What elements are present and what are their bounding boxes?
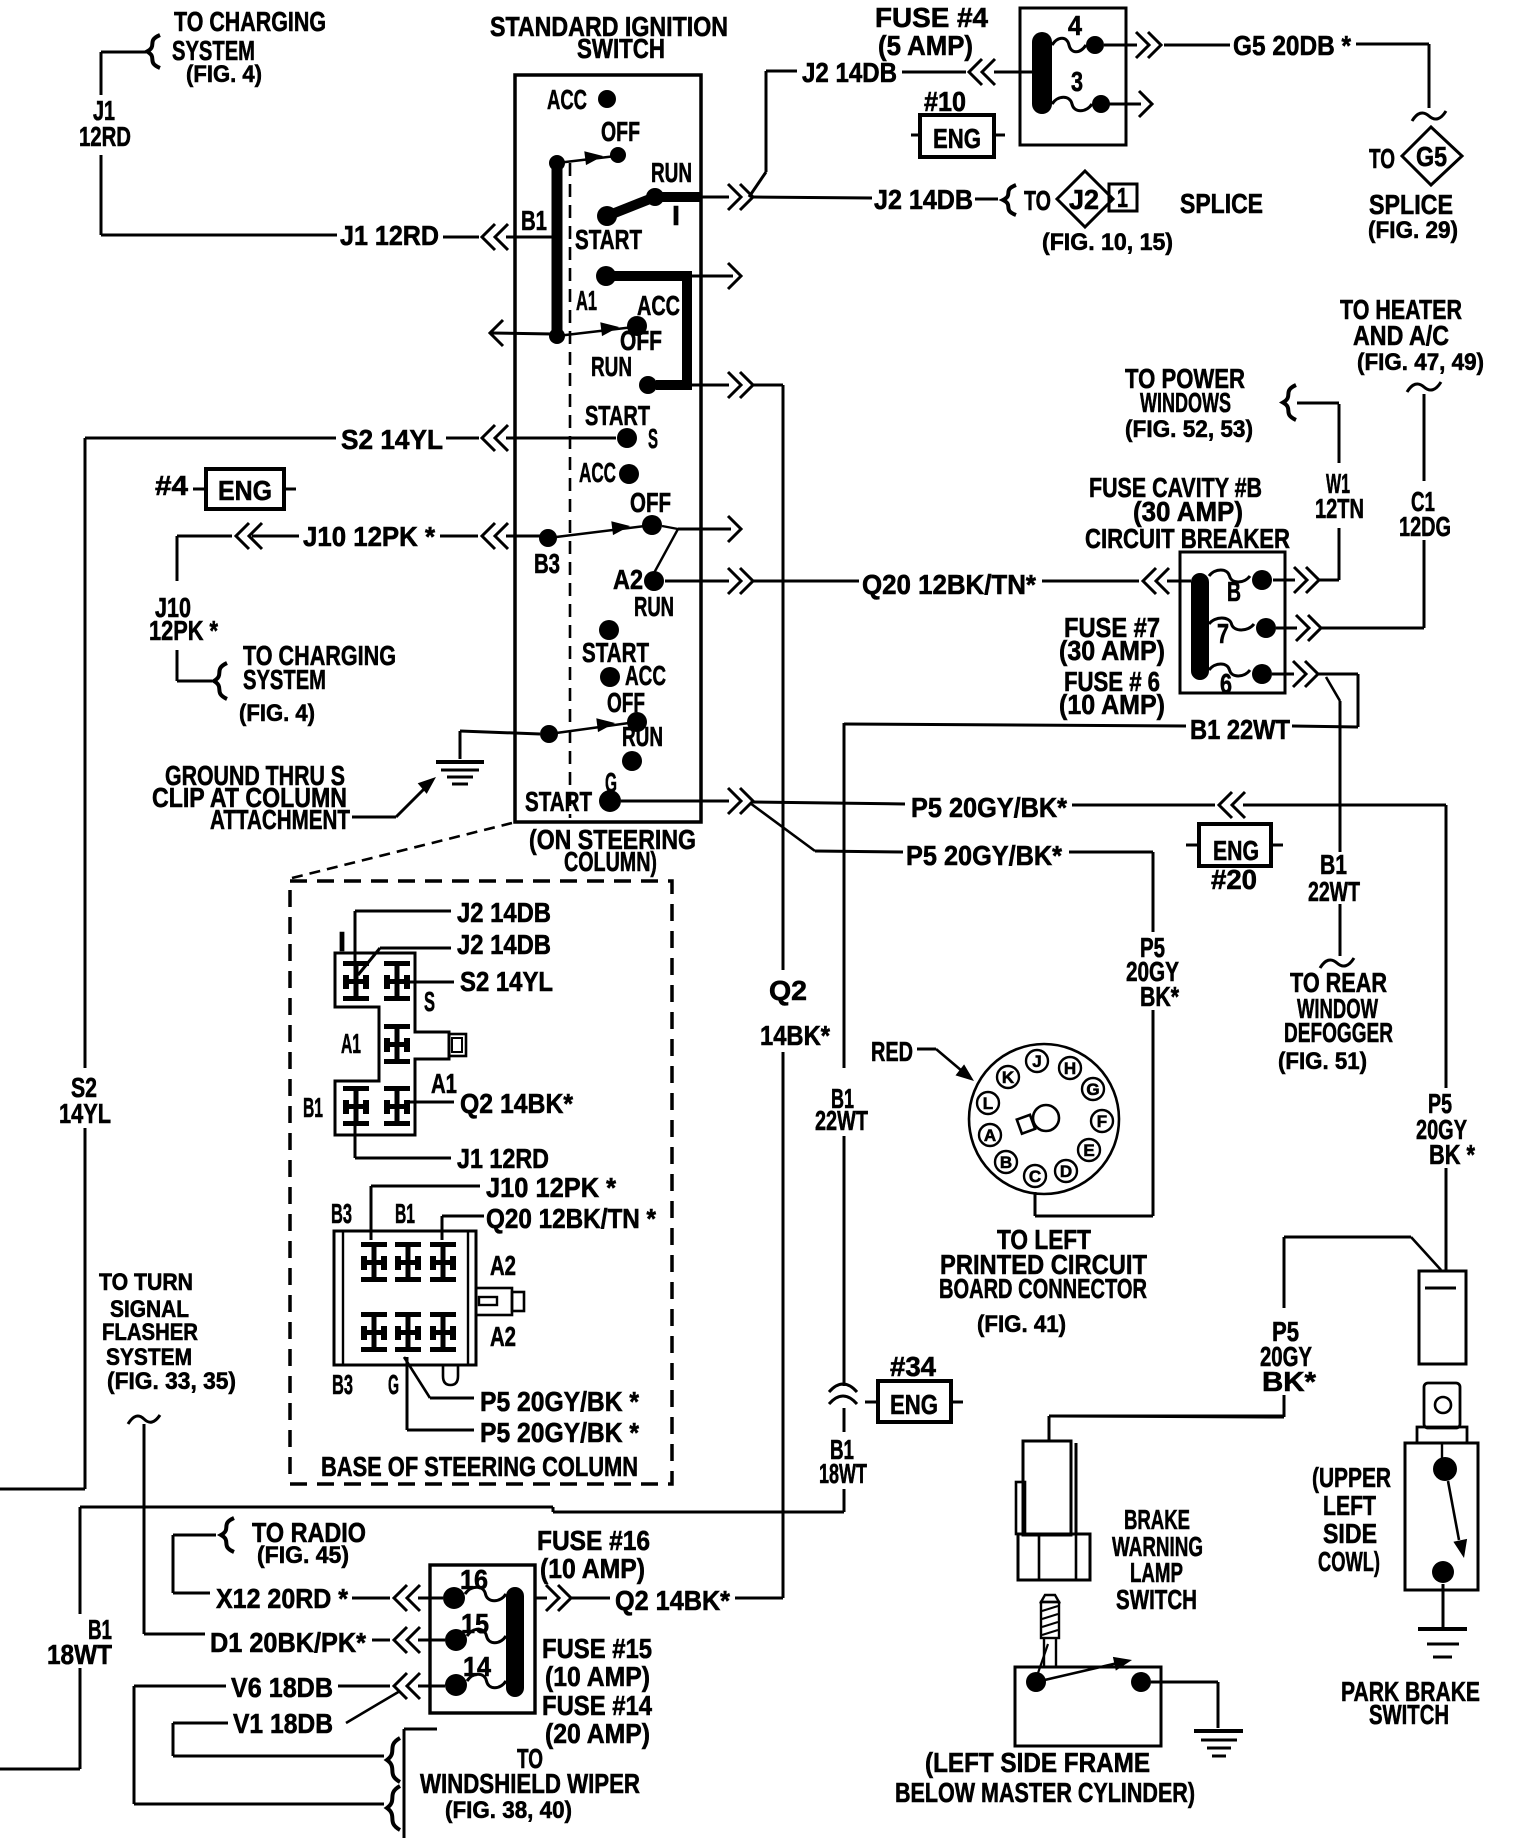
svg-text:S2 14YL: S2 14YL bbox=[341, 424, 443, 455]
svg-text:FUSE #15: FUSE #15 bbox=[542, 1633, 652, 1664]
svg-text:G: G bbox=[1086, 1080, 1099, 1099]
svg-text:SYSTEM: SYSTEM bbox=[243, 664, 326, 695]
svg-text:I: I bbox=[672, 200, 680, 231]
svg-text:J2: J2 bbox=[1069, 184, 1099, 215]
svg-text:(FIG. 4): (FIG. 4) bbox=[239, 700, 315, 727]
svg-text:ENG: ENG bbox=[890, 1389, 938, 1420]
svg-text:RUN: RUN bbox=[651, 157, 692, 188]
svg-text:BASE OF STEERING COLUMN: BASE OF STEERING COLUMN bbox=[321, 1451, 638, 1482]
svg-text:22WT: 22WT bbox=[1308, 876, 1360, 907]
svg-text:#10: #10 bbox=[924, 86, 966, 117]
svg-text:TO: TO bbox=[1024, 185, 1051, 216]
svg-text:ATTACHMENT: ATTACHMENT bbox=[210, 804, 350, 835]
svg-text:S: S bbox=[648, 423, 658, 454]
svg-text:(30 AMP): (30 AMP) bbox=[1059, 635, 1165, 666]
svg-text:A2: A2 bbox=[490, 1250, 516, 1281]
svg-text:D1 20BK/PK*: D1 20BK/PK* bbox=[210, 1627, 366, 1658]
svg-text:(FIG. 29): (FIG. 29) bbox=[1368, 217, 1458, 244]
svg-text:(10 AMP): (10 AMP) bbox=[1059, 689, 1165, 720]
svg-text:F: F bbox=[1097, 1112, 1107, 1131]
svg-text:SYSTEM: SYSTEM bbox=[106, 1344, 192, 1371]
svg-text:A1: A1 bbox=[341, 1028, 361, 1059]
svg-text:RUN: RUN bbox=[622, 721, 663, 752]
svg-text:P5 20GY/BK*: P5 20GY/BK* bbox=[911, 792, 1067, 823]
svg-text:14YL: 14YL bbox=[59, 1098, 111, 1129]
svg-text:RED: RED bbox=[871, 1036, 913, 1067]
svg-text:12TN: 12TN bbox=[1315, 493, 1364, 524]
svg-text:18WT: 18WT bbox=[819, 1458, 867, 1489]
svg-text:BK *: BK * bbox=[1429, 1139, 1475, 1170]
svg-text:SIDE: SIDE bbox=[1323, 1518, 1377, 1549]
svg-text:G: G bbox=[605, 767, 617, 798]
svg-text:B1: B1 bbox=[303, 1092, 323, 1123]
svg-text:A: A bbox=[984, 1126, 996, 1145]
svg-text:ACC: ACC bbox=[637, 290, 680, 321]
svg-text:(10 AMP): (10 AMP) bbox=[545, 1661, 650, 1692]
svg-text:COLUMN): COLUMN) bbox=[564, 846, 657, 877]
svg-text:L: L bbox=[983, 1094, 993, 1113]
svg-text:B1 22WT: B1 22WT bbox=[1190, 714, 1290, 745]
svg-text:AND A/C: AND A/C bbox=[1353, 320, 1449, 351]
svg-text:12PK *: 12PK * bbox=[149, 615, 218, 646]
svg-text:ENG: ENG bbox=[1213, 835, 1259, 866]
svg-text:RUN: RUN bbox=[634, 591, 674, 622]
svg-text:SWITCH: SWITCH bbox=[1369, 1699, 1449, 1730]
svg-text:CIRCUIT BREAKER: CIRCUIT BREAKER bbox=[1085, 523, 1290, 554]
svg-text:G: G bbox=[388, 1369, 399, 1400]
svg-text:16: 16 bbox=[460, 1564, 488, 1595]
svg-text:(10 AMP): (10 AMP) bbox=[540, 1553, 645, 1584]
svg-text:J1 12RD: J1 12RD bbox=[457, 1143, 549, 1174]
svg-text:COWL): COWL) bbox=[1318, 1546, 1380, 1577]
svg-text:B3: B3 bbox=[332, 1369, 353, 1400]
svg-text:P5 20GY/BK *: P5 20GY/BK * bbox=[480, 1417, 639, 1448]
svg-text:4: 4 bbox=[1068, 10, 1082, 41]
svg-text:#34: #34 bbox=[890, 1351, 936, 1382]
svg-text:K: K bbox=[1002, 1068, 1015, 1087]
svg-text:A1: A1 bbox=[576, 285, 597, 316]
svg-text:P5 20GY/BK *: P5 20GY/BK * bbox=[480, 1386, 639, 1417]
svg-text:(FIG. 41): (FIG. 41) bbox=[977, 1311, 1066, 1338]
svg-text:6: 6 bbox=[1220, 668, 1232, 699]
svg-text:C: C bbox=[1029, 1167, 1041, 1186]
svg-text:BOARD CONNECTOR: BOARD CONNECTOR bbox=[939, 1273, 1147, 1304]
svg-text:(FIG. 45): (FIG. 45) bbox=[257, 1542, 349, 1569]
svg-text:Q20 12BK/TN *: Q20 12BK/TN * bbox=[486, 1203, 656, 1234]
svg-text:B3: B3 bbox=[534, 548, 560, 579]
svg-text:J2 14DB: J2 14DB bbox=[802, 57, 897, 88]
svg-text:(FIG. 33, 35): (FIG. 33, 35) bbox=[107, 1368, 236, 1395]
svg-text:ENG: ENG bbox=[933, 123, 981, 154]
svg-text:J2 14DB: J2 14DB bbox=[457, 897, 551, 928]
svg-text:BK*: BK* bbox=[1262, 1366, 1316, 1397]
svg-text:3: 3 bbox=[1071, 66, 1083, 97]
svg-text:7: 7 bbox=[1217, 618, 1229, 649]
svg-text:START: START bbox=[525, 786, 592, 817]
svg-text:TO TURN: TO TURN bbox=[99, 1269, 193, 1296]
svg-text:18WT: 18WT bbox=[47, 1639, 112, 1670]
svg-text:X12 20RD *: X12 20RD * bbox=[216, 1583, 348, 1614]
svg-text:SPLICE: SPLICE bbox=[1369, 189, 1453, 220]
svg-text:J1 12RD: J1 12RD bbox=[340, 220, 439, 251]
svg-text:I: I bbox=[338, 926, 346, 957]
svg-text:SWITCH: SWITCH bbox=[577, 33, 665, 64]
svg-text:1: 1 bbox=[1117, 182, 1128, 213]
svg-text:D: D bbox=[1060, 1162, 1072, 1181]
svg-text:DEFOGGER: DEFOGGER bbox=[1284, 1017, 1393, 1048]
svg-text:G5 20DB *: G5 20DB * bbox=[1233, 30, 1351, 61]
svg-text:G5: G5 bbox=[1416, 141, 1447, 172]
svg-text:B: B bbox=[1000, 1153, 1012, 1172]
svg-text:LEFT: LEFT bbox=[1323, 1490, 1376, 1521]
svg-text:OFF: OFF bbox=[630, 487, 671, 518]
svg-text:Q2 14BK*: Q2 14BK* bbox=[615, 1585, 730, 1616]
svg-text:S2 14YL: S2 14YL bbox=[460, 966, 553, 997]
svg-text:BK*: BK* bbox=[1140, 981, 1179, 1012]
svg-text:B1: B1 bbox=[395, 1198, 415, 1229]
svg-text:22WT: 22WT bbox=[815, 1105, 868, 1136]
svg-text:ENG: ENG bbox=[218, 475, 272, 506]
svg-text:(FIG. 10, 15): (FIG. 10, 15) bbox=[1042, 229, 1173, 256]
svg-text:V6 18DB: V6 18DB bbox=[231, 1672, 333, 1703]
svg-text:Q20 12BK/TN*: Q20 12BK/TN* bbox=[862, 569, 1036, 600]
svg-text:(FIG. 47, 49): (FIG. 47, 49) bbox=[1357, 349, 1484, 376]
svg-text:V1 18DB: V1 18DB bbox=[233, 1708, 333, 1739]
svg-text:14: 14 bbox=[463, 1651, 491, 1682]
svg-text:Q2 14BK*: Q2 14BK* bbox=[460, 1088, 573, 1119]
svg-text:TO CHARGING: TO CHARGING bbox=[174, 6, 326, 37]
svg-text:15: 15 bbox=[461, 1608, 489, 1639]
svg-text:START: START bbox=[585, 400, 650, 431]
svg-text:H: H bbox=[1064, 1059, 1076, 1078]
svg-text:FUSE #4: FUSE #4 bbox=[875, 2, 988, 33]
svg-text:(FIG. 38, 40): (FIG. 38, 40) bbox=[445, 1797, 572, 1824]
svg-text:(UPPER: (UPPER bbox=[1312, 1462, 1391, 1493]
svg-text:FUSE #14: FUSE #14 bbox=[542, 1690, 652, 1721]
svg-text:J10 12PK *: J10 12PK * bbox=[486, 1172, 616, 1203]
svg-text:START: START bbox=[575, 224, 642, 255]
svg-text:ACC: ACC bbox=[547, 84, 587, 115]
svg-text:Q2: Q2 bbox=[769, 975, 807, 1006]
svg-text:B3: B3 bbox=[331, 1198, 352, 1229]
svg-text:J2 14DB: J2 14DB bbox=[457, 929, 551, 960]
svg-text:P5 20GY/BK*: P5 20GY/BK* bbox=[906, 840, 1062, 871]
svg-text:FLASHER: FLASHER bbox=[102, 1319, 198, 1346]
svg-text:(FIG. 51): (FIG. 51) bbox=[1278, 1048, 1367, 1075]
svg-text:(20 AMP): (20 AMP) bbox=[545, 1718, 650, 1749]
svg-text:S: S bbox=[424, 986, 435, 1017]
svg-text:ACC: ACC bbox=[579, 457, 616, 488]
svg-text:J2 14DB: J2 14DB bbox=[874, 184, 973, 215]
svg-text:OFF: OFF bbox=[607, 687, 645, 718]
svg-text:SPLICE: SPLICE bbox=[1180, 188, 1263, 219]
svg-text:12RD: 12RD bbox=[79, 121, 131, 152]
svg-text:A1: A1 bbox=[431, 1068, 457, 1099]
svg-text:WINDSHIELD WIPER: WINDSHIELD WIPER bbox=[420, 1768, 640, 1799]
svg-text:A2: A2 bbox=[490, 1321, 516, 1352]
svg-text:OFF: OFF bbox=[601, 116, 640, 147]
svg-text:(FIG. 4): (FIG. 4) bbox=[186, 61, 262, 88]
svg-text:J: J bbox=[1032, 1052, 1041, 1071]
svg-text:SWITCH: SWITCH bbox=[1116, 1584, 1197, 1615]
svg-text:B: B bbox=[1227, 576, 1241, 607]
svg-text:12DG: 12DG bbox=[1399, 511, 1451, 542]
svg-text:RUN: RUN bbox=[591, 351, 632, 382]
svg-text:(LEFT SIDE FRAME: (LEFT SIDE FRAME bbox=[925, 1747, 1150, 1778]
svg-text:BELOW MASTER CYLINDER): BELOW MASTER CYLINDER) bbox=[895, 1777, 1195, 1808]
svg-text:(FIG. 52, 53): (FIG. 52, 53) bbox=[1125, 416, 1253, 443]
svg-text:WINDOWS: WINDOWS bbox=[1140, 387, 1231, 418]
svg-text:E: E bbox=[1083, 1141, 1094, 1160]
svg-text:FUSE #16: FUSE #16 bbox=[537, 1525, 650, 1556]
svg-text:B1: B1 bbox=[521, 205, 547, 236]
svg-text:TO: TO bbox=[1369, 143, 1395, 174]
svg-text:#4: #4 bbox=[155, 470, 188, 501]
svg-text:J10 12PK *: J10 12PK * bbox=[303, 521, 435, 552]
svg-text:#20: #20 bbox=[1211, 864, 1257, 895]
svg-text:14BK*: 14BK* bbox=[760, 1020, 830, 1051]
